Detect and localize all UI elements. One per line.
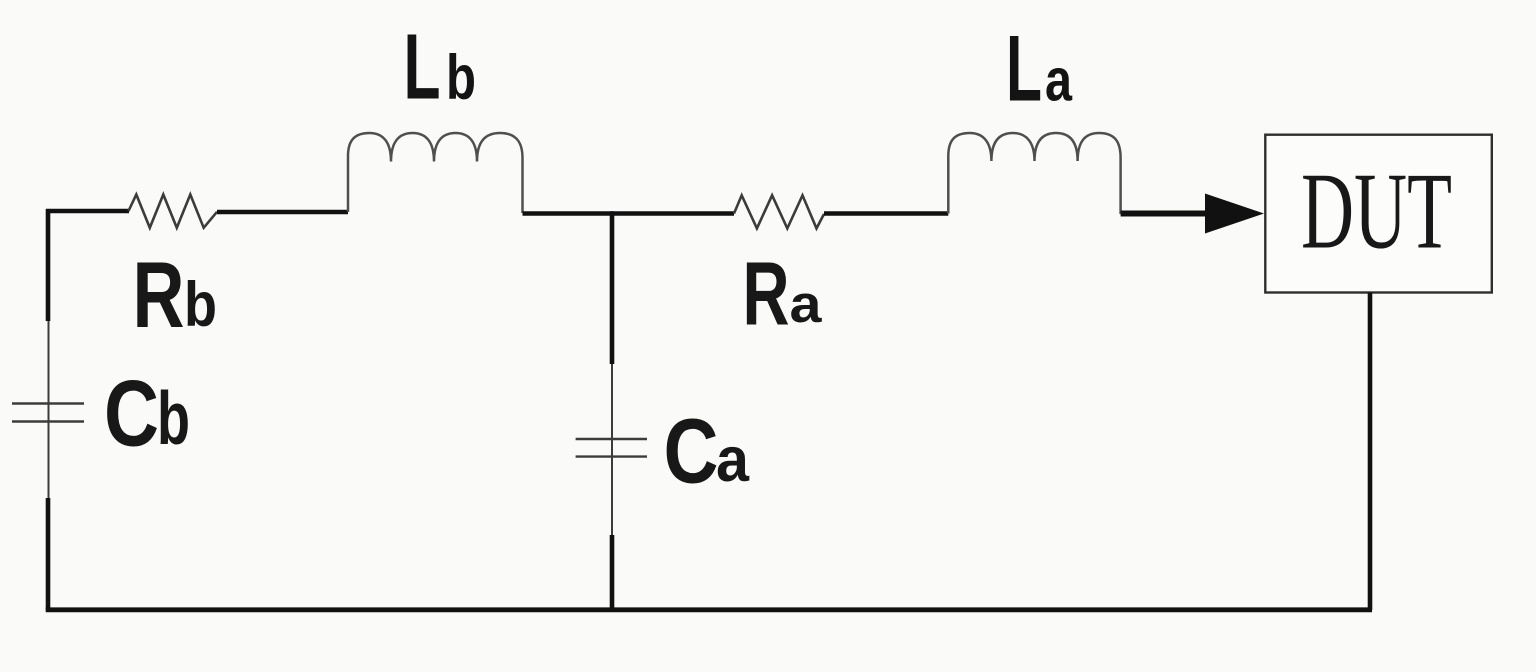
wire middle node to resistor Ra — [610, 211, 734, 216]
wire Lb to middle node — [523, 211, 615, 216]
inductor La — [948, 133, 1120, 214]
svg-text:b: b — [446, 43, 476, 113]
svg-text:C: C — [664, 401, 719, 503]
label Cb — [104, 361, 190, 466]
svg-text:R: R — [133, 242, 185, 347]
label Ra — [743, 245, 823, 345]
wire arrow shaft (La to DUT) — [1121, 211, 1208, 217]
label Rb — [133, 242, 218, 347]
wire between Rb and inductor Lb — [217, 210, 348, 215]
resistor Rb — [129, 195, 218, 228]
wire Ra to inductor La — [824, 211, 948, 216]
svg-text:a: a — [716, 425, 750, 495]
svg-text:DUT: DUT — [1301, 151, 1452, 272]
wire top-left horizontal (left rail to resistor Rb) — [46, 209, 129, 214]
svg-text:a: a — [1045, 47, 1073, 114]
svg-text:R: R — [743, 245, 790, 345]
wire middle vertical bottom (thick) — [610, 535, 615, 610]
wire bottom rail — [46, 607, 1372, 612]
resistor Ra — [734, 195, 824, 228]
wire left rail vertical thin (capacitor Cb leads) — [48, 321, 50, 498]
inductor Lb — [348, 133, 523, 213]
svg-text:L: L — [1006, 16, 1042, 121]
svg-text:a: a — [790, 275, 823, 334]
label Ca — [664, 401, 750, 503]
wire left rail vertical top (thick) — [46, 209, 51, 321]
capacitor Ca — [576, 439, 647, 457]
node junction middle — [610, 212, 615, 364]
DUT box — [1265, 135, 1492, 293]
wire middle vertical thin (capacitor Ca leads) — [611, 364, 613, 535]
label La — [1006, 16, 1073, 121]
svg-text:b: b — [157, 376, 190, 460]
svg-text:b: b — [184, 270, 217, 340]
capacitor Cb — [12, 404, 84, 422]
svg-text:C: C — [104, 361, 159, 466]
svg-text:L: L — [404, 15, 441, 119]
wire DUT to right rail vertical — [1368, 293, 1373, 611]
arrowhead into DUT — [1205, 194, 1264, 234]
wire left rail vertical bottom (thick) — [46, 498, 51, 610]
label Lb — [404, 15, 477, 119]
